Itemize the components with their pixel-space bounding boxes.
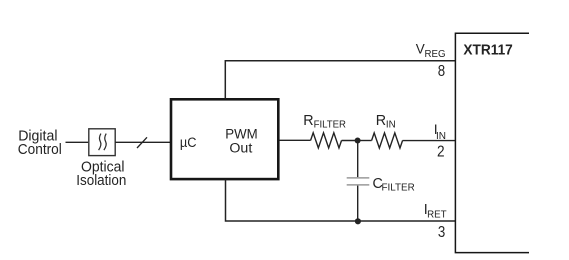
junction node A dot bbox=[355, 138, 361, 144]
svg-text:FILTER: FILTER bbox=[314, 120, 346, 131]
svg-text:µC: µC bbox=[180, 135, 197, 150]
wire: RIN to IIN pin 2 bbox=[403, 140, 456, 142]
svg-text:REG: REG bbox=[425, 49, 446, 60]
svg-text:Control: Control bbox=[18, 141, 62, 158]
node: VREG label bbox=[416, 41, 446, 60]
junction node B dot bbox=[355, 218, 361, 224]
wire: CFILTER to IRET rail bbox=[357, 186, 359, 221]
svg-text:Isolation: Isolation bbox=[76, 172, 126, 189]
resistor RIN bbox=[372, 133, 403, 148]
svg-text:3: 3 bbox=[438, 224, 446, 241]
wire: RFILTER to junction bbox=[342, 140, 358, 142]
svg-text:V: V bbox=[416, 41, 425, 56]
microcontroller U2 box bbox=[171, 99, 278, 179]
node: RFILTER label bbox=[303, 113, 346, 131]
IC XTR117 outline bbox=[455, 33, 529, 252]
node: PWM Out label bbox=[225, 126, 257, 157]
capacitor CFILTER bbox=[347, 178, 370, 185]
svg-text:8: 8 bbox=[438, 63, 446, 80]
svg-text:2: 2 bbox=[437, 144, 445, 161]
node: RIN label bbox=[376, 113, 396, 131]
wire: uC top to VREG pin 8 bbox=[225, 61, 455, 99]
node: IRET label bbox=[424, 202, 447, 220]
svg-text:FILTER: FILTER bbox=[382, 183, 415, 194]
wire: junction to RIN bbox=[358, 140, 372, 142]
wire: Digital Control to optical isolation bbox=[66, 141, 89, 143]
svg-text:IN: IN bbox=[386, 120, 396, 131]
wire: uC bottom to IRET rail bbox=[226, 180, 456, 222]
node: Optical Isolation label bbox=[76, 159, 126, 189]
bus slash on isolated wire bbox=[137, 137, 147, 148]
svg-text:PWM: PWM bbox=[225, 126, 257, 142]
wire: uC PWM out to RFILTER bbox=[279, 139, 311, 141]
node: Digital Control label bbox=[18, 127, 62, 158]
optical isolator wavy symbol bbox=[99, 134, 107, 151]
svg-text:RET: RET bbox=[427, 210, 447, 221]
node: IIN label bbox=[434, 121, 446, 142]
node: CFILTER label bbox=[373, 176, 415, 194]
svg-text:R: R bbox=[376, 113, 386, 129]
svg-text:Out: Out bbox=[229, 141, 252, 157]
optical isolator U1 box bbox=[89, 129, 115, 156]
svg-text:IN: IN bbox=[436, 131, 446, 142]
svg-text:R: R bbox=[303, 113, 313, 129]
wire: junction to CFILTER bbox=[357, 141, 359, 178]
wire: optical isolation to microcontroller bbox=[115, 141, 170, 143]
svg-text:XTR117: XTR117 bbox=[463, 41, 512, 58]
resistor RFILTER bbox=[311, 133, 342, 148]
